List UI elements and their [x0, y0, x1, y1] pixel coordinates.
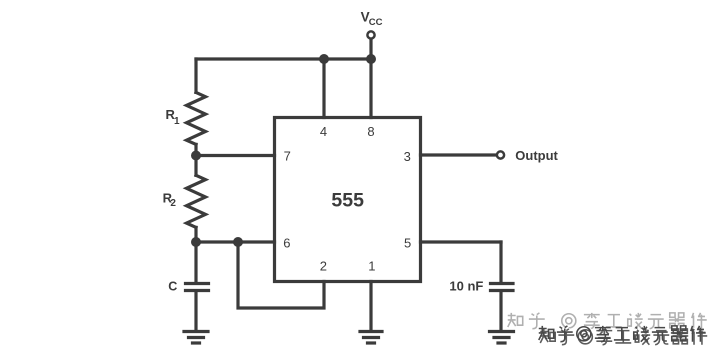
svg-text:Output: Output: [515, 148, 558, 163]
svg-text:2: 2: [320, 259, 327, 274]
svg-text:2: 2: [170, 198, 176, 209]
svg-text:CC: CC: [369, 17, 383, 28]
svg-text:4: 4: [320, 124, 327, 139]
svg-text:7: 7: [284, 149, 291, 164]
svg-text:6: 6: [283, 236, 290, 251]
svg-text:C: C: [168, 280, 177, 294]
svg-text:5: 5: [404, 236, 411, 251]
svg-text:8: 8: [367, 124, 374, 139]
svg-text:1: 1: [368, 259, 375, 274]
svg-text:555: 555: [331, 190, 364, 212]
svg-text:3: 3: [404, 149, 411, 164]
svg-text:1: 1: [174, 116, 180, 127]
svg-text:10 nF: 10 nF: [449, 279, 483, 294]
